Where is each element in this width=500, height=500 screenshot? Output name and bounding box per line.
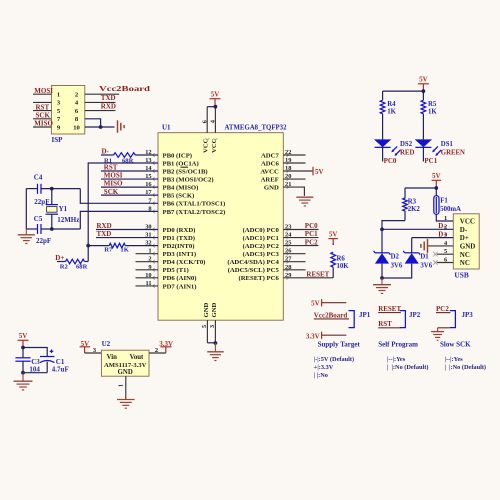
svg-text:SCK: SCK	[104, 188, 119, 196]
LED DS2 RED	[374, 139, 391, 147]
wire ISP pin9 MISO	[33, 126, 51, 128]
svg-text:VCC: VCC	[203, 138, 210, 153]
svg-text:Y1: Y1	[59, 205, 68, 213]
net RESET wire pin29	[283, 277, 333, 279]
svg-text:PB2 (SS/OC1B): PB2 (SS/OC1B)	[163, 168, 208, 175]
wire JP3 to ground	[438, 327, 450, 329]
net D- with resistor R1 68R to pin12	[101, 154, 114, 156]
resistor R2	[66, 259, 85, 264]
label TXD at pin31	[96, 237, 158, 239]
pin VCC 6	[206, 107, 208, 133]
svg-text:D+: D+	[438, 230, 447, 238]
svg-text:GND: GND	[460, 243, 476, 251]
svg-text:JP3: JP3	[462, 311, 474, 319]
svg-text:4.7uF: 4.7uF	[52, 366, 69, 374]
wire ISP pin6 RXD	[85, 110, 116, 112]
resistor R5 1K	[422, 91, 424, 100]
svg-text:C1: C1	[56, 358, 65, 366]
svg-text:1: 1	[119, 384, 125, 387]
resistor R4 1K	[382, 91, 384, 100]
svg-text:PD3 (INT1): PD3 (INT1)	[163, 251, 197, 258]
pin stub (unconnected)	[136, 277, 159, 279]
svg-text:RXD: RXD	[97, 222, 112, 230]
svg-text:PC1: PC1	[305, 230, 318, 238]
svg-text:R4: R4	[387, 101, 396, 108]
ground USB pin4 (sideways left)	[427, 239, 429, 253]
jumper JP2 bracket	[400, 311, 406, 328]
svg-text:D+: D+	[55, 254, 64, 262]
label RST at pin14	[101, 170, 158, 172]
jumper JP1 bracket	[349, 311, 355, 328]
capacitor C1 4.7uF (polarized)	[40, 356, 54, 358]
svg-text:3V6: 3V6	[420, 262, 432, 269]
svg-text:| |:No (Default): | |:No (Default)	[445, 364, 486, 371]
ground U2	[117, 399, 135, 401]
svg-text:2: 2	[155, 347, 158, 354]
svg-text:RST: RST	[36, 103, 50, 111]
svg-text:PB4 (MISO): PB4 (MISO)	[163, 185, 199, 192]
pin GND 3	[214, 320, 216, 343]
wire DS2 to PC0	[382, 147, 384, 161]
svg-text:3: 3	[93, 347, 96, 354]
svg-text:ISP: ISP	[52, 136, 64, 144]
wire 5V to R6	[332, 243, 334, 245]
op IC U1 ATMEGA8_TQFP32 body	[158, 133, 283, 321]
junction ISP ground node	[99, 125, 103, 129]
net D+ with resistor R2 68R	[57, 261, 66, 263]
pin stub (unconnected)	[283, 269, 305, 271]
pin VCC 4	[214, 107, 216, 133]
wire pin13 (PB1) long vertical	[88, 163, 158, 262]
svg-text:MISO: MISO	[34, 120, 53, 128]
svg-text:AMS1117-3.3V: AMS1117-3.3V	[104, 362, 147, 369]
svg-text:5V: 5V	[432, 172, 441, 180]
net PC1 wire pin24	[283, 237, 318, 239]
svg-text:Vcc2Board: Vcc2Board	[99, 85, 150, 93]
svg-text:RXD: RXD	[101, 102, 116, 110]
svg-text:Slow SCK: Slow SCK	[440, 340, 471, 348]
svg-text:TXD: TXD	[101, 94, 116, 102]
svg-text:RED: RED	[400, 150, 414, 157]
svg-text:PD4 (XCK/T0): PD4 (XCK/T0)	[163, 259, 206, 266]
wire to ground	[25, 229, 27, 234]
svg-text:MISO: MISO	[104, 180, 123, 188]
resistor R6 10K	[331, 252, 336, 267]
svg-text:| |:No (Default): | |:No (Default)	[387, 364, 428, 371]
net PC2 wire pin25	[283, 245, 318, 247]
svg-text:NC: NC	[460, 251, 470, 259]
junction caps ground	[21, 371, 25, 375]
svg-text:5V: 5V	[19, 332, 28, 340]
no-connect X pin6	[433, 260, 438, 265]
wire caps bottom rail	[23, 372, 47, 374]
svg-text:DS1: DS1	[441, 141, 454, 148]
svg-text:68R: 68R	[76, 264, 88, 271]
svg-text:500mA: 500mA	[440, 206, 461, 213]
svg-text:DS2: DS2	[400, 141, 413, 148]
svg-text:Supply Target: Supply Target	[318, 340, 361, 348]
svg-text:PB3 (MOSI/OC2): PB3 (MOSI/OC2)	[163, 176, 214, 183]
svg-text:U1: U1	[162, 124, 171, 132]
junction GND node	[214, 341, 218, 345]
wire left rail	[25, 189, 27, 229]
resistor R1	[114, 153, 136, 158]
svg-text:(ADC0) PC0: (ADC0) PC0	[243, 227, 280, 234]
svg-text:5: 5	[201, 325, 208, 328]
connector ISP header	[51, 86, 84, 135]
svg-text:1K: 1K	[428, 108, 437, 115]
svg-text:5V: 5V	[329, 230, 338, 238]
svg-text:AREF: AREF	[261, 176, 279, 183]
wire R5 to DS1	[422, 114, 424, 140]
svg-text:VCC: VCC	[211, 138, 218, 153]
svg-text:PC0: PC0	[305, 222, 318, 230]
junction crystal bottom	[50, 227, 54, 231]
pin GND 5	[206, 320, 208, 343]
wire RESET to JP2	[378, 312, 401, 314]
svg-text:C4: C4	[34, 174, 43, 182]
svg-text:RESET: RESET	[306, 270, 329, 278]
junction VCC node	[214, 105, 218, 109]
wire ISP pin7 SCK	[33, 118, 51, 120]
svg-text:(ADC5/SCL) PC5: (ADC5/SCL) PC5	[228, 267, 280, 274]
svg-text:R7: R7	[104, 247, 113, 254]
svg-text:JP2: JP2	[409, 311, 421, 319]
wire to ground	[214, 343, 216, 351]
svg-text:1: 1	[444, 215, 447, 222]
wire 5V to JP1	[322, 302, 347, 304]
svg-text:RESET: RESET	[378, 305, 401, 313]
zener diode D1 3V6	[405, 252, 419, 254]
wire 5V to U2 pin3	[85, 352, 102, 354]
svg-text:5V: 5V	[315, 168, 324, 176]
svg-text:PB7 (XTAL2/TOSC2): PB7 (XTAL2/TOSC2)	[163, 209, 226, 216]
junction 5V LED	[422, 89, 426, 93]
svg-text:PD2(INT0): PD2(INT0)	[163, 243, 195, 250]
svg-text:GND: GND	[264, 185, 279, 192]
svg-text:PD1 (TXD): PD1 (TXD)	[163, 235, 196, 242]
svg-text:MOSI: MOSI	[34, 87, 53, 95]
svg-text:NC: NC	[460, 259, 470, 267]
resistor R7 1K to pin32	[88, 245, 109, 247]
svg-text:(ADC2) PC2: (ADC2) PC2	[243, 243, 280, 250]
pin stub (unconnected)	[136, 261, 159, 263]
junction crystal top	[50, 187, 54, 191]
svg-text:USB: USB	[454, 270, 468, 279]
svg-text:1: 1	[57, 92, 60, 99]
svg-text:|--|:Yes: |--|:Yes	[387, 356, 406, 363]
power 5V at AVCC	[312, 167, 314, 176]
wire LED top rail	[383, 90, 424, 92]
junction 5V/R3/F1	[434, 186, 438, 190]
svg-text:3V6: 3V6	[391, 262, 403, 269]
ground zeners	[373, 284, 391, 286]
wire D+ down to D1	[411, 238, 413, 253]
svg-text:(ADC3) PC3: (ADC3) PC3	[243, 251, 280, 258]
wire 5V to VCC pins	[207, 106, 215, 108]
svg-text:5V: 5V	[211, 91, 220, 99]
zener diode D2 3V6	[375, 252, 389, 254]
svg-text:PC1: PC1	[424, 157, 437, 165]
svg-text:RST: RST	[104, 164, 118, 172]
svg-text:GREEN: GREEN	[441, 150, 465, 157]
pin stub (unconnected)	[136, 285, 159, 287]
svg-text:C3: C3	[31, 358, 40, 366]
capacitor C5	[37, 224, 39, 234]
ground crystal	[18, 234, 35, 236]
svg-text:Self Program: Self Program	[378, 340, 418, 348]
wire GND pin21	[283, 187, 304, 196]
svg-text:PC2: PC2	[436, 305, 449, 313]
svg-text:10: 10	[73, 124, 80, 131]
wire ISP pin8 to ground	[85, 119, 101, 127]
svg-text:Vout: Vout	[130, 354, 144, 361]
svg-text:D-: D-	[438, 222, 446, 230]
USB pin stubs	[437, 253, 454, 255]
svg-text:ADC6: ADC6	[261, 160, 279, 167]
resistor R3 2K2	[404, 188, 406, 198]
wire U2 pin2 to 3.3V	[149, 352, 166, 354]
ground ISP (sideways)	[117, 120, 119, 133]
junction zener ground node	[380, 276, 384, 280]
svg-text:|-|:5V (Default): |-|:5V (Default)	[314, 356, 354, 363]
net D+ wire to USB pin3	[412, 237, 454, 239]
svg-text:R3: R3	[408, 199, 417, 206]
svg-text:GND: GND	[118, 369, 133, 376]
svg-text:PD5 (T1): PD5 (T1)	[163, 267, 189, 274]
svg-text:D2: D2	[391, 254, 400, 261]
svg-text:3.3V: 3.3V	[306, 332, 320, 340]
label MISO at pin16	[101, 186, 158, 188]
connector USB	[453, 214, 479, 269]
pin stub (unconnected)	[283, 261, 305, 263]
net PC0 wire pin23	[283, 229, 318, 231]
svg-text:D-: D-	[102, 148, 110, 156]
jumper JP3 bracket	[450, 311, 456, 328]
wire 5V rail to R3	[405, 187, 436, 189]
svg-text:MOSI: MOSI	[104, 172, 123, 180]
svg-text:3: 3	[209, 325, 216, 328]
pin stub	[283, 162, 305, 164]
svg-text:1K: 1K	[120, 247, 129, 254]
svg-text:R2: R2	[60, 264, 69, 271]
pin direction marks top pins	[205, 138, 209, 140]
wire to ground	[381, 278, 383, 284]
svg-text:PC2: PC2	[305, 238, 318, 246]
wire ISP pin2 Vcc2Board	[85, 93, 119, 95]
wire ISP pin3	[33, 101, 51, 103]
wire GND pins join	[207, 342, 215, 344]
wire to ground	[22, 373, 24, 381]
svg-text:5V: 5V	[419, 76, 428, 84]
svg-text:ATMEGA8_TQFP32: ATMEGA8_TQFP32	[225, 125, 288, 132]
junction 5V/C3	[21, 346, 25, 350]
wire 3.3V to JP1	[322, 334, 347, 336]
svg-text:SCK: SCK	[36, 112, 51, 120]
svg-text:C5: C5	[34, 215, 43, 223]
wire R3 bottom to zener rail	[382, 221, 405, 253]
ground caps	[14, 380, 33, 382]
fuse F1 500mA	[435, 188, 437, 196]
svg-text:2K2: 2K2	[408, 206, 421, 213]
wire AVCC to 5V	[283, 170, 313, 172]
svg-text:VCC: VCC	[460, 218, 475, 226]
svg-text:PB6 (XTAL1/TOSC1): PB6 (XTAL1/TOSC1)	[163, 201, 226, 208]
ground JP3	[437, 328, 439, 331]
pin stub (unconnected)	[283, 253, 305, 255]
svg-text:R6: R6	[337, 255, 346, 262]
svg-text:D1: D1	[420, 254, 429, 261]
junction D- node	[380, 227, 384, 231]
wire crystal vertical bottom	[51, 214, 53, 229]
svg-text:R5: R5	[428, 101, 437, 108]
svg-text:PB5 (SCK): PB5 (SCK)	[163, 193, 195, 200]
ground at pin21	[296, 196, 313, 198]
overline SS of PB2	[181, 166, 189, 168]
wire DS1 to PC1	[422, 147, 424, 161]
svg-text:D-: D-	[460, 226, 468, 234]
regulator U2 AMS1117-3.3V body	[101, 350, 149, 376]
svg-text:F1: F1	[440, 198, 448, 205]
pin stub	[283, 154, 305, 156]
svg-text:GND: GND	[211, 302, 218, 317]
capacitor C4	[37, 184, 39, 194]
svg-text:| |:No: | |:No	[314, 372, 328, 379]
capacitor C3 104	[22, 348, 24, 358]
pin stub (unconnected)	[136, 269, 159, 271]
label MOSI at pin15	[101, 178, 158, 180]
svg-text:PB0 (ICP): PB0 (ICP)	[163, 152, 193, 159]
svg-text:PB1 (OC1A): PB1 (OC1A)	[163, 160, 199, 167]
LED DS2 arrows	[393, 146, 398, 151]
svg-text:10K: 10K	[337, 263, 350, 270]
no-connect X pin5	[433, 252, 438, 257]
svg-text:+|:3.3V: +|:3.3V	[314, 364, 334, 371]
svg-text:5V: 5V	[311, 299, 320, 307]
wire zener grounds	[381, 264, 383, 278]
wire F1 to USB pin1	[436, 214, 453, 221]
wire ISP pin10 to ground	[85, 126, 115, 128]
svg-text:D+: D+	[460, 234, 469, 242]
svg-text:JP1: JP1	[359, 311, 371, 319]
wire PC2 to JP3	[436, 312, 450, 314]
svg-text:U2: U2	[102, 340, 111, 348]
svg-text:1K: 1K	[387, 108, 396, 115]
LED DS1 arrows	[433, 146, 438, 151]
svg-text:PD0 (RXD): PD0 (RXD)	[163, 227, 196, 234]
svg-text:12MHz: 12MHz	[57, 216, 79, 224]
wire ISP pin5 RST	[33, 110, 51, 112]
wire ISP pin4 TXD	[85, 101, 116, 103]
svg-text:22pF: 22pF	[36, 237, 51, 245]
svg-text:PC0: PC0	[384, 157, 397, 165]
pin stub (unconnected)	[136, 253, 159, 255]
wire Vcc2Board to JP1	[314, 318, 349, 320]
wire crystal top rail	[26, 188, 37, 190]
svg-text:(RESET) PC6: (RESET) PC6	[238, 275, 279, 282]
LED DS1 GREEN	[415, 139, 432, 147]
label SCK at pin17	[101, 194, 158, 196]
svg-text:TXD: TXD	[97, 230, 112, 238]
crystal Y1	[46, 204, 58, 206]
svg-text:Vin: Vin	[107, 354, 118, 361]
svg-text:|--|:Yes: |--|:Yes	[445, 356, 464, 363]
wire rail to pin8	[80, 211, 158, 229]
wire rail to pin7	[80, 189, 158, 204]
wire crystal bottom rail	[26, 228, 37, 230]
wire 5V rail to C1	[23, 348, 47, 357]
net D- wire to USB pin2	[382, 228, 453, 230]
svg-text:PD7 (AIN1): PD7 (AIN1)	[163, 283, 197, 290]
wire ISP pin1 MOSI	[33, 93, 51, 95]
svg-text:AVCC: AVCC	[260, 168, 279, 175]
junction pin13-net / R7	[86, 244, 90, 248]
svg-text:Vcc2Board: Vcc2Board	[314, 311, 348, 319]
pin stub	[283, 178, 305, 180]
svg-text:(ADC4/SDA) PC4: (ADC4/SDA) PC4	[227, 259, 279, 266]
label RXD at pin30	[96, 229, 158, 231]
wire crystal vertical top	[51, 189, 53, 205]
wire RST to JP2	[378, 327, 401, 329]
wire R4 to DS2	[382, 114, 384, 140]
wire U2 GND pin	[125, 376, 127, 399]
svg-text:(ADC1) PC1: (ADC1) PC1	[243, 235, 279, 242]
svg-text:GND: GND	[203, 302, 210, 317]
ground below U1	[207, 351, 224, 353]
svg-text:PD6 (AIN0): PD6 (AIN0)	[163, 275, 197, 282]
svg-text:ADC7: ADC7	[261, 152, 279, 159]
svg-text:RST: RST	[378, 320, 392, 328]
